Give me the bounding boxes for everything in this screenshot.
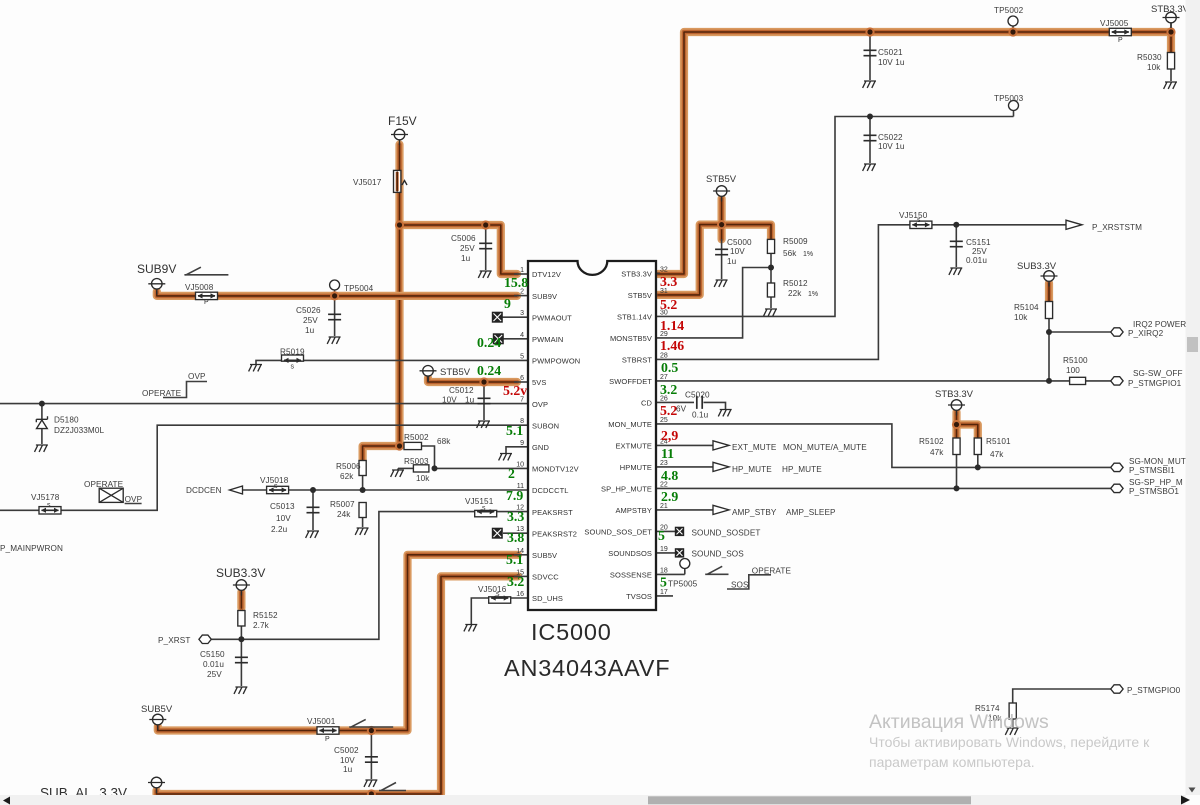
ground C5013 xyxy=(306,531,319,538)
pin 28 STBRST xyxy=(622,352,668,364)
pin 8 SUBON xyxy=(520,418,559,430)
svg-text:1u: 1u xyxy=(343,765,353,774)
resistor R5104 xyxy=(1014,302,1053,323)
signal arrow DCDCEN xyxy=(186,486,243,495)
ground C5000 xyxy=(714,280,727,287)
no-connect pin 20 xyxy=(675,527,683,535)
wire C5150 to ground xyxy=(240,639,242,686)
svg-text:P: P xyxy=(204,299,209,306)
svg-text:R5009: R5009 xyxy=(783,237,808,246)
svg-text:R5019: R5019 xyxy=(280,348,305,357)
wire R5002 to R5003 junction xyxy=(400,446,529,468)
wire pin14 stub xyxy=(514,554,528,556)
svg-text:C5020: C5020 xyxy=(685,391,710,400)
svg-text:1%: 1% xyxy=(803,251,813,258)
svg-text:PWMAOUT: PWMAOUT xyxy=(532,313,572,322)
wire SUB9V rail xyxy=(157,292,517,296)
operate/ovp block OPERATE xyxy=(84,480,143,504)
resistor R5100 xyxy=(1063,356,1088,385)
ground SD_UHS xyxy=(464,625,477,632)
svg-text:2.7k: 2.7k xyxy=(253,621,270,630)
capacitor C5006 xyxy=(451,234,492,263)
jumper VJ5178 xyxy=(31,493,61,514)
pin 31 STB5V xyxy=(628,288,668,300)
wire STB5V arm to R5009 xyxy=(722,225,771,240)
svg-text:C5021: C5021 xyxy=(878,48,903,57)
svg-text:VJ5005: VJ5005 xyxy=(1100,19,1129,28)
wire STBRST net to VJ5150 xyxy=(656,225,1070,360)
svg-text:MON_MUTE/A_MUTE: MON_MUTE/A_MUTE xyxy=(783,443,867,452)
svg-text:P_STMSBO1: P_STMSBO1 xyxy=(1129,487,1179,496)
ground C5006 xyxy=(478,271,491,278)
svg-text:s: s xyxy=(274,483,278,490)
svg-text:VJ5151: VJ5151 xyxy=(465,497,494,506)
wire SP_HP_MUTE net xyxy=(656,487,1111,489)
svg-text:s: s xyxy=(496,591,500,598)
svg-text:SUB3.3V: SUB3.3V xyxy=(216,566,265,580)
wire pin17 stub xyxy=(656,595,673,597)
wire F15V vertical / DTV12V feed xyxy=(395,145,403,447)
svg-text:3: 3 xyxy=(520,310,524,317)
svg-text:0.01u: 0.01u xyxy=(203,660,224,669)
signal arrow AMP_STBY xyxy=(713,505,836,517)
svg-text:STB5V: STB5V xyxy=(440,367,471,378)
wire R5030 to ground xyxy=(1170,70,1172,82)
svg-text:1u: 1u xyxy=(461,254,471,263)
op-amp IC5000 body xyxy=(504,261,670,681)
svg-text:P_XRST: P_XRST xyxy=(158,636,190,645)
junction OVP/D5180 xyxy=(39,401,45,407)
svg-text:47k: 47k xyxy=(990,450,1004,459)
svg-text:68k: 68k xyxy=(437,437,451,446)
pin 23 HPMUTE xyxy=(620,460,668,472)
svg-text:OVP: OVP xyxy=(188,372,206,381)
wire STB3.3V symbol stem top right xyxy=(1170,23,1172,32)
svg-text:4: 4 xyxy=(520,332,524,339)
svg-text:10k: 10k xyxy=(1147,63,1161,72)
svg-text:5.2v: 5.2v xyxy=(503,383,527,398)
jumper VJ5008 xyxy=(185,283,218,306)
resistor R5003 xyxy=(404,457,430,483)
svg-text:25V: 25V xyxy=(207,670,222,679)
wire DCDCEN net to pin 11 xyxy=(242,489,528,491)
svg-text:R5012: R5012 xyxy=(783,279,808,288)
svg-text:s: s xyxy=(47,502,51,509)
zener diode D5180 DZ2J033M0L xyxy=(36,416,104,436)
jumper VJ5150 xyxy=(899,211,932,229)
no-connect pin 3 xyxy=(492,312,502,322)
svg-text:5: 5 xyxy=(658,528,665,543)
wire C5020 to ground xyxy=(704,402,726,409)
pin 30 STB1.14V xyxy=(617,309,668,321)
svg-text:R5030: R5030 xyxy=(1137,53,1162,62)
pin 20 SOUND_SOS_DET xyxy=(584,524,667,536)
wire pin13 stub xyxy=(503,532,528,534)
ground C5022 xyxy=(863,164,876,171)
pin 6 5VS xyxy=(520,375,546,387)
svg-text:SUB5V: SUB5V xyxy=(141,704,173,715)
horizontal scrollbar xyxy=(0,795,1190,805)
svg-text:5: 5 xyxy=(660,575,667,590)
svg-text:DTV12V: DTV12V xyxy=(532,270,561,279)
svg-text:SWOFFDET: SWOFFDET xyxy=(609,377,652,386)
test point TP5004 xyxy=(330,280,374,293)
wire R5003 to ground xyxy=(397,468,399,470)
svg-text:VJ5178: VJ5178 xyxy=(31,493,60,502)
junction C5022 tap xyxy=(867,114,873,120)
svg-text:STB3.3V: STB3.3V xyxy=(935,389,974,400)
pin 18 SOSSENSE xyxy=(610,567,668,579)
svg-text:9: 9 xyxy=(504,296,511,311)
pin 9 GND xyxy=(520,440,549,452)
wire CD pin 26 stub xyxy=(656,401,694,403)
wire STB3.3V branch to R5101 xyxy=(957,425,978,439)
svg-text:0.24: 0.24 xyxy=(477,363,501,378)
ground R5003 xyxy=(391,470,404,477)
svg-text:SUB3.3V: SUB3.3V xyxy=(1017,261,1057,272)
svg-text:Чтобы активировать Windows, пе: Чтобы активировать Windows, перейдите к xyxy=(869,734,1150,750)
wire PWMPOWON net to pin 5 xyxy=(256,360,528,364)
net mark SUB9V xyxy=(184,267,228,275)
svg-text:SOUND_SOS_DET: SOUND_SOS_DET xyxy=(584,528,652,537)
junction R5003/MONDTV12V xyxy=(432,465,438,471)
svg-text:10k: 10k xyxy=(416,474,430,483)
svg-text:OPERATE: OPERATE xyxy=(142,389,182,398)
wire SUB_AL_3.3V rail to pin 15 xyxy=(157,576,519,794)
ground pin 9 GND xyxy=(499,454,512,461)
svg-text:C5006: C5006 xyxy=(451,234,476,243)
wire C5021 to ground xyxy=(869,32,871,80)
svg-text:3.2: 3.2 xyxy=(660,382,677,397)
svg-text:2.2u: 2.2u xyxy=(271,525,288,534)
svg-text:VJ5008: VJ5008 xyxy=(185,283,214,292)
svg-text:R5003: R5003 xyxy=(404,457,429,466)
wire R5007 to ground xyxy=(362,517,364,527)
ground C5012 xyxy=(477,421,490,428)
svg-text:VJ5150: VJ5150 xyxy=(899,211,928,220)
junction SUB_AL rail xyxy=(367,789,376,798)
junction STB3.3V/R5030 corner xyxy=(1166,27,1175,36)
svg-text:62k: 62k xyxy=(340,472,354,481)
wire R5006 to DCDCEN junction xyxy=(362,475,364,490)
fuse VJ5017 xyxy=(353,170,401,192)
svg-text:DCDCCTL: DCDCCTL xyxy=(532,486,569,495)
pin 2 SUB9V xyxy=(520,289,557,301)
wire R5104 to IRQ2 line and SWOFFDET xyxy=(1048,319,1050,381)
svg-text:7.9: 7.9 xyxy=(506,488,523,503)
svg-text:10k: 10k xyxy=(1014,313,1028,322)
signal step SOS/OPERATE xyxy=(727,567,791,590)
svg-text:AMP_STBY: AMP_STBY xyxy=(732,508,777,517)
capacitor C5020 xyxy=(685,391,710,420)
svg-text:R5006: R5006 xyxy=(336,462,361,471)
wire IRQ2 branch xyxy=(1049,331,1111,333)
svg-text:16: 16 xyxy=(516,591,524,598)
svg-text:24k: 24k xyxy=(337,510,351,519)
net mark C5002 xyxy=(379,783,406,791)
resistor R5152 xyxy=(238,611,278,631)
wire STB5V to 5VS pin 6 xyxy=(428,378,517,382)
jumper VJ5005 xyxy=(1100,19,1131,44)
no-connect pin 4 xyxy=(493,334,503,344)
capacitor C5002 xyxy=(334,746,378,774)
svg-text:IC5000: IC5000 xyxy=(531,619,612,645)
ground C5002 xyxy=(364,780,377,787)
svg-text:R5007: R5007 xyxy=(330,500,355,509)
svg-text:R5101: R5101 xyxy=(986,437,1011,446)
wire SUB3.3V stub to R5152 xyxy=(237,592,245,608)
wire C5000 to ground xyxy=(721,239,723,279)
svg-text:OPERATE: OPERATE xyxy=(752,567,792,576)
svg-text:10V: 10V xyxy=(442,396,457,405)
svg-text:MONSTB5V: MONSTB5V xyxy=(610,334,652,343)
svg-text:10V 1u: 10V 1u xyxy=(878,58,905,67)
svg-text:TP5005: TP5005 xyxy=(668,580,698,589)
svg-text:0.5: 0.5 xyxy=(661,360,678,375)
wire STB1.14V net to TP5003 xyxy=(656,117,1014,317)
wire R5009 R5012 chain xyxy=(770,239,772,283)
pin 22 SP_HP_MUTE xyxy=(601,481,668,493)
svg-text:AMPSTBY: AMPSTBY xyxy=(615,506,652,515)
wire R5101 to MON_MUTE line xyxy=(977,455,979,468)
svg-text:56k: 56k xyxy=(783,249,797,258)
svg-text:P_XIRQ2: P_XIRQ2 xyxy=(1128,329,1164,338)
pin 25 MON_MUTE xyxy=(608,417,668,429)
svg-text:11: 11 xyxy=(661,446,674,461)
pin 11 DCDCCTL xyxy=(517,483,569,495)
wire R5003 link xyxy=(398,467,413,469)
jumper VJ5016 xyxy=(478,585,511,603)
svg-text:PEAKSRST: PEAKSRST xyxy=(532,508,573,517)
svg-text:TVSOS: TVSOS xyxy=(626,592,652,601)
wire TP5002 stem xyxy=(1012,27,1014,33)
wire R5174 net to P_STMGPIO0 xyxy=(1013,689,1111,703)
svg-text:PWMAIN: PWMAIN xyxy=(532,335,563,344)
svg-text:SG-SP_HP_M: SG-SP_HP_M xyxy=(1129,478,1183,487)
svg-text:STB5V: STB5V xyxy=(706,174,737,185)
ground R5030 xyxy=(1164,82,1177,89)
net mark SOSSENSE xyxy=(705,566,728,574)
svg-text:EXTMUTE: EXTMUTE xyxy=(615,442,652,451)
wire STB5V stub to C5000 xyxy=(717,199,725,240)
svg-text:10V: 10V xyxy=(730,247,745,256)
svg-text:P: P xyxy=(1118,37,1123,44)
svg-text:SOUNDSOS: SOUNDSOS xyxy=(608,549,652,558)
ground C5021 xyxy=(863,81,876,88)
wire SUB3.3V stub to R5104 xyxy=(1045,283,1053,301)
capacitor C5000 xyxy=(715,238,752,266)
signal arrow EXT_MUTE xyxy=(713,441,867,452)
svg-text:25V: 25V xyxy=(972,247,987,256)
pin 19 SOUNDSOS xyxy=(608,546,668,558)
watermark activation text xyxy=(869,711,1150,770)
capacitor C5022 xyxy=(864,133,905,151)
pin 32 STB3.3V xyxy=(621,266,668,278)
svg-text:GND: GND xyxy=(532,443,549,452)
svg-text:TP5004: TP5004 xyxy=(344,284,374,293)
svg-text:2: 2 xyxy=(508,466,515,481)
svg-text:5.1: 5.1 xyxy=(506,552,523,567)
svg-text:2,9: 2,9 xyxy=(661,428,678,443)
junction R5101/MON_MUTE xyxy=(975,464,981,470)
svg-text:F15V: F15V xyxy=(388,114,417,128)
svg-text:C5013: C5013 xyxy=(270,502,295,511)
jumper VJ5151 xyxy=(465,497,497,517)
wire STB3.3V stub to R5102/R5101 xyxy=(952,412,960,438)
svg-text:0.1u: 0.1u xyxy=(692,411,709,420)
svg-text:28: 28 xyxy=(660,352,668,359)
junction C5006 tap xyxy=(481,220,490,229)
pin 4 PWMAIN xyxy=(520,332,563,344)
svg-text:18: 18 xyxy=(660,567,668,574)
svg-text:SD_UHS: SD_UHS xyxy=(532,594,563,603)
svg-text:STB5V: STB5V xyxy=(628,291,652,300)
pin 1 DTV12V xyxy=(520,267,561,279)
svg-text:17: 17 xyxy=(660,589,668,596)
net mark SUB5V xyxy=(349,719,393,727)
svg-text:0.24: 0.24 xyxy=(477,335,501,350)
wire C5151 to ground xyxy=(955,225,957,267)
resistor R5009 xyxy=(767,237,808,258)
svg-text:C5026: C5026 xyxy=(296,306,321,315)
capacitor C5013 xyxy=(270,502,320,534)
junction C5012 tap xyxy=(479,377,488,386)
ground R5174 xyxy=(1005,728,1018,735)
wire SD_UHS to ground xyxy=(471,598,528,624)
connector P_XRST xyxy=(158,635,211,645)
resistor R5006 xyxy=(336,461,366,482)
svg-text:6V: 6V xyxy=(676,405,687,414)
svg-text:C5002: C5002 xyxy=(334,746,359,755)
svg-text:P_MAINPWRON: P_MAINPWRON xyxy=(0,544,63,553)
wire SUB5V rail to pin 14 xyxy=(158,555,518,731)
svg-text:OVP: OVP xyxy=(125,495,143,504)
svg-text:Активация Windows: Активация Windows xyxy=(869,711,1049,733)
svg-text:R5100: R5100 xyxy=(1063,356,1088,365)
svg-text:4.8: 4.8 xyxy=(661,468,678,483)
pin 7 OVP xyxy=(520,397,548,409)
junction R5002/R5006 xyxy=(395,441,404,450)
svg-text:10V: 10V xyxy=(276,514,291,523)
svg-text:C5150: C5150 xyxy=(200,650,225,659)
wire STB5V symbol stem xyxy=(427,376,429,382)
svg-text:22k: 22k xyxy=(788,289,802,298)
junction R5104/SWOFFDET xyxy=(1046,378,1052,384)
wire STB5V arm to pin 31 xyxy=(658,225,722,295)
power symbol STB5V (divider) xyxy=(706,174,737,202)
svg-text:SUB9V: SUB9V xyxy=(137,262,176,276)
signal arrow HP_MUTE xyxy=(713,462,822,474)
pin 17 TVSOS xyxy=(626,589,668,601)
svg-text:47k: 47k xyxy=(930,448,944,457)
signal step OPERATE/OVP (top) xyxy=(142,372,207,398)
wire C5006 tap to ground xyxy=(485,225,487,270)
ground C5151 xyxy=(949,268,962,275)
wire R5012 to ground xyxy=(770,297,772,308)
pin 24 EXTMUTE xyxy=(615,438,667,450)
wire TP5005 stem xyxy=(684,568,686,574)
wire SWOFFDET net to P_STMGPIO1 xyxy=(656,380,1111,382)
vertical scrollbar xyxy=(1186,0,1200,795)
svg-text:параметрам компьютера.: параметрам компьютера. xyxy=(869,754,1035,770)
svg-text:5.2: 5.2 xyxy=(660,297,677,312)
pin 21 AMPSTBY xyxy=(615,503,667,515)
ground R5007 xyxy=(355,528,368,535)
svg-text:EXT_MUTE: EXT_MUTE xyxy=(732,443,777,452)
junction STB5V tee xyxy=(717,220,726,229)
svg-text:100: 100 xyxy=(1066,366,1080,375)
pin 26 CD xyxy=(641,395,668,407)
svg-text:SOSSENSE: SOSSENSE xyxy=(610,571,652,580)
wire OVP net to pin 7 xyxy=(0,403,528,405)
svg-text:s: s xyxy=(917,217,921,224)
ground C5026 xyxy=(327,337,340,344)
pin 5 PWMPOWON xyxy=(520,353,580,365)
svg-text:3.3: 3.3 xyxy=(507,509,524,524)
svg-text:10V 1u: 10V 1u xyxy=(878,142,905,151)
svg-text:1: 1 xyxy=(520,267,524,274)
svg-text:R5002: R5002 xyxy=(404,433,429,442)
wire C5022 to ground xyxy=(869,117,871,164)
power symbol SUB3.3V (R5104) xyxy=(1017,261,1058,287)
svg-text:PWMPOWON: PWMPOWON xyxy=(532,357,580,366)
capacitor C5012 xyxy=(442,386,491,405)
pin 10 MONDTV12V xyxy=(516,461,579,473)
jumper R5019 xyxy=(280,348,305,371)
wire SUB9V into pin 2 xyxy=(514,295,528,297)
svg-text:STB3.3V: STB3.3V xyxy=(1151,4,1190,15)
connector P_STMSBI1 xyxy=(1111,457,1186,475)
pin 13 PEAKSRST2 xyxy=(516,526,577,538)
pin 12 PEAKSRST xyxy=(516,505,573,517)
power symbol SUB9V xyxy=(137,262,176,294)
wire R5174 to ground xyxy=(1012,719,1014,727)
svg-text:3.2: 3.2 xyxy=(507,574,524,589)
svg-text:10: 10 xyxy=(516,461,524,468)
wire MON_MUTE net xyxy=(656,424,1111,468)
junction R5102/SP_HP_MUTE xyxy=(954,485,960,491)
svg-text:5: 5 xyxy=(520,353,524,360)
pin 3 PWMAOUT xyxy=(520,310,572,322)
wire R5152 to P_XRST junction xyxy=(240,626,242,639)
test point TP5005 xyxy=(668,559,698,589)
ground R5012 xyxy=(764,309,777,316)
power symbol STB3.3V top right xyxy=(1151,4,1190,28)
junction R5009/R5012/MONSTB5V xyxy=(768,265,774,271)
svg-text:MONDTV12V: MONDTV12V xyxy=(532,465,579,474)
jumper VJ5018 xyxy=(260,476,289,494)
connector P_STMSBO1 xyxy=(1111,478,1183,496)
no-connect pin 13 xyxy=(492,528,502,538)
power symbol F15V xyxy=(388,114,417,145)
connector P_STMGPIO1 xyxy=(1111,369,1183,388)
capacitor C5026 xyxy=(296,306,341,335)
svg-text:3.3: 3.3 xyxy=(660,274,677,289)
svg-text:P_STMGPIO1: P_STMGPIO1 xyxy=(1128,379,1182,388)
wire pin32 stub xyxy=(656,272,660,274)
junction R5104/IRQ2 xyxy=(1046,329,1052,335)
svg-text:SOUND_SOS: SOUND_SOS xyxy=(692,550,745,559)
svg-text:P_XRSTSTM: P_XRSTSTM xyxy=(1092,223,1142,232)
svg-text:1%: 1% xyxy=(808,291,818,298)
svg-text:SUB9V: SUB9V xyxy=(532,292,557,301)
power symbol STB5V (5VS) xyxy=(420,366,471,382)
wire C5012 tap to ground xyxy=(483,382,485,420)
power symbol STB3.3V (R5102) xyxy=(935,389,974,416)
junction VJ5001/C5002 xyxy=(367,726,376,735)
svg-text:SOUND_SOSDET: SOUND_SOSDET xyxy=(692,529,761,538)
svg-text:HP_MUTE: HP_MUTE xyxy=(732,465,772,474)
